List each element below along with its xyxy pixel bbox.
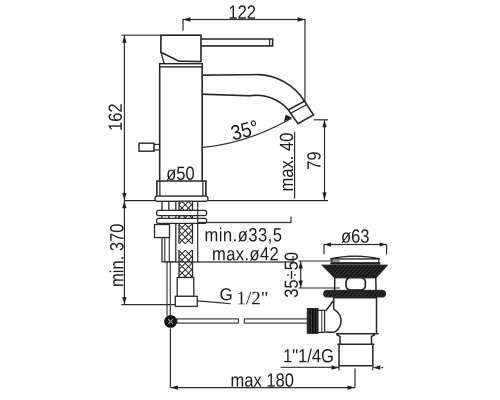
label t162: 162	[109, 104, 123, 129]
dim 35-50	[299, 261, 340, 288]
faucet head (cartridge cap)	[161, 35, 201, 64]
below-deck faucet parts	[155, 201, 308, 328]
label t79: 79	[307, 152, 321, 169]
side boss curve	[326, 300, 341, 332]
rod clamp block	[155, 225, 170, 238]
backnut	[337, 335, 375, 345]
linkage pipe to drain	[307, 309, 324, 334]
horizontal pop-up linkage rod segment 1	[177, 319, 239, 323]
horizontal pop-up linkage rod segment 2	[244, 319, 307, 323]
label t12: 1/2"	[238, 292, 267, 305]
label tmax42: max.Ø42	[213, 247, 278, 261]
side pin	[139, 143, 160, 151]
label tG: G	[220, 288, 231, 300]
ball joint	[164, 315, 177, 328]
label tO50: Ø50	[167, 167, 194, 181]
knurled adjuster ring	[307, 309, 318, 334]
max.40 label line	[294, 132, 296, 199]
G 1/2 label	[198, 301, 231, 304]
shank neck	[177, 278, 194, 297]
label tO63: Ø63	[341, 229, 368, 243]
dim 79	[314, 120, 328, 200]
pop-up rod lower	[167, 262, 170, 316]
label tmax40: max. 40	[280, 133, 294, 190]
aerator at spout end	[288, 101, 313, 124]
cap dark rim band	[331, 262, 381, 264]
label t180: max 180	[232, 373, 294, 387]
ring collar	[318, 310, 325, 332]
lock washer 2 below deck	[157, 218, 207, 223]
drain flange (dark band)	[324, 291, 386, 297]
min/max hole labels leader	[164, 202, 293, 262]
G1/2 connector nipple	[175, 296, 197, 306]
faucet body column	[160, 67, 203, 181]
drain body column	[334, 297, 377, 334]
lever handle	[201, 39, 273, 46]
pop-up rod tube	[162, 201, 176, 262]
label t3550: 35÷50	[285, 253, 299, 298]
dim 1 1/4 G	[281, 365, 384, 370]
base washer on deck	[155, 196, 208, 201]
threaded shank (cross-hatched)	[179, 201, 193, 277]
tailpiece 1"1/4	[339, 345, 373, 366]
drain mid section walls	[335, 278, 376, 291]
body bottom edge	[336, 333, 379, 335]
label t370: min. 370	[110, 224, 124, 286]
slot opening	[346, 278, 365, 290]
label t35deg: 35°	[230, 120, 259, 141]
dim max180	[170, 328, 355, 389]
deck / mounting surface line	[124, 200, 328, 202]
collar under head	[160, 64, 203, 67]
spout tube	[202, 75, 305, 110]
35 degree arc	[202, 115, 292, 148]
drain cap dome	[330, 256, 380, 259]
shank white gap band	[178, 244, 193, 250]
dim 162 + min370 shared line	[121, 35, 176, 304]
cap knurled edge (dark band)	[323, 265, 387, 277]
lock washer 1 below deck	[157, 210, 207, 215]
label t122: 122	[230, 5, 255, 18]
tube inner lines below clamp	[165, 238, 170, 262]
drain assembly	[307, 256, 386, 366]
dim O63	[324, 242, 387, 254]
base flange	[157, 181, 206, 196]
label tmin335: min.Ø33,5	[206, 228, 282, 244]
cap side walls	[332, 259, 379, 262]
label t114: 1"1/4G	[284, 349, 332, 363]
dim 122 line	[183, 17, 305, 101]
